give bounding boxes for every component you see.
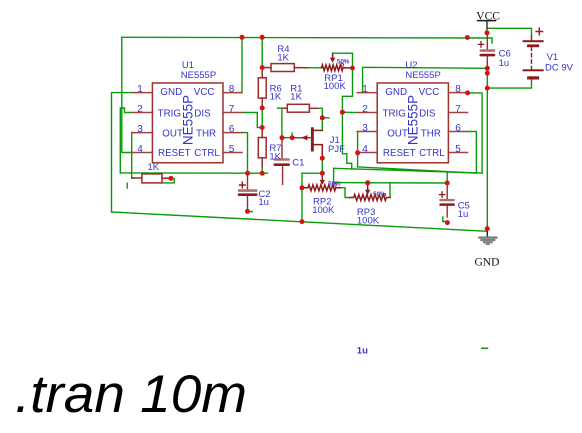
svg-text:100K: 100K [357, 216, 380, 227]
svg-text:50%: 50% [373, 191, 386, 198]
resistor R7 1K [261, 128, 263, 138]
U1 pin stubs right 8-5 [223, 93, 242, 153]
U2 pin numbers [362, 84, 461, 155]
wire RP3 right lead up [389, 183, 391, 198]
svg-text:1K: 1K [148, 162, 160, 173]
wire U1 pin1 GND down left side [112, 93, 133, 212]
RP2 wiper arrow [321, 177, 323, 181]
svg-text:VCC: VCC [194, 87, 215, 98]
svg-text:DIS: DIS [194, 108, 211, 119]
svg-text:THR: THR [421, 128, 441, 139]
U1 pin stubs left 1-4 [133, 93, 153, 153]
wire node line west (TRIG/THR/C2/R7) [120, 172, 267, 174]
svg-text:4: 4 [137, 144, 143, 155]
wire drop to C5 top [446, 172, 448, 188]
wire C6 bottom chain [486, 66, 488, 88]
svg-text:1K: 1K [277, 53, 289, 64]
svg-text:7: 7 [455, 104, 461, 115]
U2 pin stubs right 8-5 [448, 93, 467, 153]
wire stub right of R1/J1 node [322, 117, 329, 119]
wire long sloped line A (U2 out/reset to pin6) [358, 167, 476, 173]
potentiometer RP3 100K zigzag [350, 195, 390, 201]
svg-text:GND: GND [160, 87, 182, 98]
RP1 wiper arrow [332, 54, 334, 59]
svg-text:7: 7 [229, 104, 235, 115]
wire R6 bottom to R7 top [261, 108, 263, 128]
wire C5 bottom hook [443, 217, 447, 222]
svg-text:1: 1 [137, 84, 143, 95]
svg-text:NE555P: NE555P [405, 70, 440, 81]
potentiometer RP2 100K zigzag [302, 185, 341, 191]
svg-text:C1: C1 [292, 158, 304, 169]
VCC power symbol [478, 20, 496, 22]
wire R1 right down to J1 drain [317, 108, 323, 130]
wire U1 pin3 OUT down to 1K resistor [132, 133, 134, 178]
svg-text:6: 6 [229, 124, 235, 135]
op-amp U1 NE555P body [152, 83, 223, 163]
potentiometer RP1 100K zigzag [322, 65, 353, 71]
resistor R4 1K [262, 67, 271, 69]
svg-text:NE555P: NE555P [181, 70, 216, 81]
svg-text:.tran 10m: .tran 10m [15, 365, 247, 424]
wire R7 bottom to node line [261, 167, 263, 173]
wire line B left drop [333, 168, 335, 182]
wire dangling tick bottom right [482, 347, 488, 349]
wire U2 pin1 up and right to C6 [363, 67, 488, 92]
svg-text:TRIG: TRIG [383, 108, 406, 119]
wire U1 pin7 DIS to R6/R7 junction [242, 113, 262, 128]
svg-text:1u: 1u [458, 209, 469, 220]
svg-text:2: 2 [137, 104, 143, 115]
wire RP3 wiper link [367, 183, 369, 185]
resistor R6 1K [261, 68, 263, 78]
op-amp U2 NE555P body [377, 83, 448, 163]
svg-text:3: 3 [137, 124, 143, 135]
wire rail down to R4/R6 [261, 37, 263, 67]
svg-text:GND: GND [385, 87, 407, 98]
svg-text:5: 5 [455, 144, 461, 155]
U2 pin stubs left 1-4 [357, 93, 377, 153]
wire battery bottom to GND column [487, 80, 531, 89]
wire top VCC rail [122, 37, 492, 43]
wire RP3 line to C5 [334, 182, 448, 184]
wire GND column down [486, 88, 488, 231]
wire U2 pin4 down to line A [357, 153, 359, 167]
wire U2 pin6 THR right and down [468, 132, 477, 174]
wire R4 to RP1 [307, 67, 322, 69]
capacitor C2 polarized [247, 173, 249, 189]
wire RP2 right step down to RP3 [341, 188, 351, 198]
svg-text:DIS: DIS [419, 108, 436, 119]
wire stub above gate node [291, 133, 293, 138]
svg-text:8: 8 [229, 84, 235, 95]
wire long sloped line B (pin8 branch) [334, 168, 483, 173]
svg-text:1K: 1K [269, 151, 281, 162]
svg-text:CTRL: CTRL [194, 148, 220, 159]
wire VCC to battery top [487, 28, 532, 36]
capacitor C6 polarized [486, 34, 488, 49]
svg-text:TRIG: TRIG [158, 108, 181, 119]
svg-text:8: 8 [455, 84, 461, 95]
wire U1 pin2 TRIG jog down to node line [120, 108, 132, 173]
svg-text:VCC: VCC [419, 87, 440, 98]
svg-text:1u: 1u [499, 58, 510, 69]
wire RP1 wiper to right end [333, 53, 353, 68]
wire RP2 wiper link [321, 173, 323, 176]
svg-text:1K: 1K [270, 92, 282, 103]
svg-text:50%: 50% [337, 58, 350, 65]
wire U2 pin3 OUT down to pin4 [357, 132, 359, 153]
svg-text:NE555P: NE555P [180, 95, 195, 145]
wire U1 pin6 THR down to C2 [242, 133, 248, 174]
ground symbol [486, 229, 488, 236]
svg-text:5: 5 [229, 144, 235, 155]
svg-text:PJF: PJF [328, 144, 345, 155]
svg-text:RESET: RESET [383, 148, 416, 159]
J1 source lead [314, 145, 323, 159]
resistor 1K below U1 [132, 177, 142, 179]
svg-text:6: 6 [455, 123, 461, 134]
wire R1 left to J1 gate node [278, 108, 282, 138]
svg-text:3: 3 [362, 123, 368, 134]
wire bottom diagonal to GND [112, 212, 488, 231]
wire U1 pin8 up to rail [241, 37, 243, 92]
resistor R1 1K [282, 107, 287, 109]
svg-text:THR: THR [196, 129, 216, 140]
svg-text:1u: 1u [258, 197, 269, 208]
wire J1 source down [321, 158, 323, 173]
wire RP1 right down to U2 pin2 [342, 68, 352, 112]
wire node line east segment [302, 172, 322, 174]
wire U2 pin2 TRIG stub link [342, 111, 357, 113]
svg-text:VCC: VCC [476, 10, 500, 22]
capacitor C5 polarized [446, 187, 448, 199]
svg-text:2: 2 [362, 104, 368, 115]
U2 pin names [383, 87, 446, 159]
wire RP2 left down to diagonal [301, 188, 303, 222]
wire U2 TRIG staircase down [342, 112, 351, 169]
battery V1 DC 9V [531, 37, 533, 41]
U1 pin names [158, 87, 221, 159]
svg-text:100K: 100K [312, 205, 335, 216]
svg-text:RESET: RESET [158, 148, 191, 159]
svg-text:1: 1 [362, 84, 368, 95]
svg-text:100K: 100K [324, 81, 347, 92]
wire VCC rail left drop to U1 pin4 [122, 37, 133, 152]
svg-text:1K: 1K [290, 92, 302, 103]
wire drop to RP2 left [301, 173, 303, 188]
wire J1 gate segment [282, 137, 302, 139]
svg-text:DC 9V: DC 9V [545, 62, 574, 73]
svg-text:GND: GND [475, 257, 500, 269]
wire C2 bottom hook [248, 208, 253, 212]
RP3 wiper arrow [367, 185, 369, 191]
J1 drain lead [314, 129, 323, 131]
wire 1K resistor right hook [162, 178, 174, 183]
U1 pin numbers [137, 84, 235, 155]
transistor J1 PJF channel bar [311, 127, 314, 151]
svg-text:1u: 1u [357, 345, 368, 356]
svg-text:CTRL: CTRL [419, 148, 445, 159]
wire small tick I below 1K [126, 183, 128, 188]
J1 gate lead with arrow [295, 137, 311, 139]
capacitor C1 [281, 138, 283, 159]
svg-text:50%: 50% [328, 181, 341, 188]
svg-text:4: 4 [362, 144, 368, 155]
wire U2 pin8 right and down [468, 93, 483, 173]
svg-text:NE555P: NE555P [405, 95, 420, 145]
